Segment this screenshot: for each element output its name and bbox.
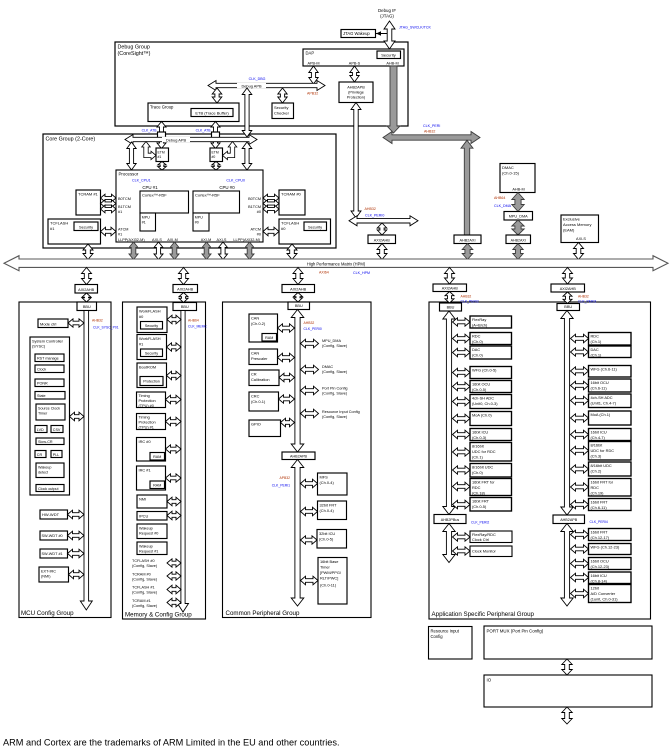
wire 8/16bit UDC for RDC Ch1 to bus bbox=[453, 448, 471, 456]
svg-text:16bit FRT for: 16bit FRT for bbox=[591, 480, 614, 485]
svg-text:UDC for RDC: UDC for RDC bbox=[591, 448, 615, 453]
wire AXI2AHB mid to HPM bbox=[377, 244, 387, 260]
svg-text:CLK_ATB: CLK_ATB bbox=[196, 129, 212, 133]
block BBU common bbox=[288, 302, 310, 310]
wire 32bit FRT to bus bbox=[301, 507, 318, 516]
wire 16bit FRT Ch6-11 to bus bbox=[571, 500, 589, 509]
svg-text:(Config, Slave): (Config, Slave) bbox=[132, 578, 158, 582]
svg-text:(Config, Slave): (Config, Slave) bbox=[132, 591, 158, 595]
port ATCM #1 bbox=[118, 228, 128, 237]
block 16bit ICU Ch0-3 bbox=[470, 429, 512, 441]
svg-text:BBU: BBU bbox=[447, 306, 455, 310]
wire MoA Ch0 to bus bbox=[453, 414, 471, 423]
svg-text:CLK_PERI3: CLK_PERI3 bbox=[578, 300, 596, 304]
svg-text:16bit FRT: 16bit FRT bbox=[591, 530, 609, 535]
port LLPP(AXI32-M) cpu1 bbox=[118, 238, 145, 242]
svg-text:Security: Security bbox=[308, 224, 322, 229]
svg-text:DMAC: DMAC bbox=[502, 165, 514, 170]
svg-text:DAP: DAP bbox=[306, 51, 315, 56]
label CLK_PERI0 common bbox=[304, 327, 322, 331]
svg-text:BBU: BBU bbox=[564, 305, 572, 309]
svg-text:#1: #1 bbox=[118, 233, 122, 237]
wire 16bit OCU Ch6-11 to bus bbox=[571, 381, 589, 390]
svg-text:#0: #0 bbox=[257, 233, 261, 237]
svg-text:#0: #0 bbox=[257, 210, 261, 214]
bus APP left vertical bbox=[443, 311, 455, 515]
svg-text:AHB2AXI: AHB2AXI bbox=[511, 238, 526, 242]
wire CAN Prescaler to bus bbox=[278, 353, 295, 362]
block TPU #0 bbox=[137, 392, 166, 408]
svg-text:RST manage: RST manage bbox=[37, 356, 59, 360]
svg-text:(Ch.0-1): (Ch.0-1) bbox=[251, 399, 266, 404]
port B0TCM right bbox=[248, 197, 261, 201]
block IRC #0 bbox=[137, 438, 166, 462]
label CLK_PERI2 app bbox=[471, 521, 489, 525]
svg-text:(Ch.12-23): (Ch.12-23) bbox=[591, 564, 610, 569]
svg-text:ETM: ETM bbox=[212, 151, 219, 155]
label CLK_PERI app-right bbox=[578, 300, 596, 304]
svg-text:AHB2AXI: AHB2AXI bbox=[459, 238, 475, 242]
block AXI2AHB mcu bbox=[75, 285, 98, 294]
bus APP right vertical bbox=[561, 311, 573, 516]
wire DMAC to MPU_DMA bbox=[512, 193, 524, 212]
block 8/16bit UDC for RDC Ch3 bbox=[589, 442, 632, 461]
node TCRAM #1 Config Slave bbox=[132, 599, 158, 608]
bus APP right lower bbox=[561, 524, 573, 607]
svg-text:#1: #1 bbox=[158, 155, 162, 159]
label AHB64 mem bbox=[188, 319, 199, 323]
svg-text:CLK_CPU0: CLK_CPU0 bbox=[226, 179, 245, 183]
svg-text:#1: #1 bbox=[118, 210, 122, 214]
svg-text:Timing: Timing bbox=[139, 416, 150, 420]
svg-text:(Ch.0-2): (Ch.0-2) bbox=[251, 321, 266, 326]
block AXI2AHB mem bbox=[173, 285, 198, 293]
block 16bit FRT Ch12-17 bbox=[589, 529, 632, 541]
svg-text:AXI-M: AXI-M bbox=[167, 238, 178, 242]
note trademark footnote bbox=[3, 738, 340, 748]
block DAP bbox=[303, 49, 404, 66]
block 16bit OCU Ch6-11 bbox=[589, 379, 632, 392]
svg-text:(Config, Slave): (Config, Slave) bbox=[322, 392, 348, 396]
wire AXI2AHB to BBU mem bbox=[179, 293, 188, 303]
svg-text:Core Group (2-Core): Core Group (2-Core) bbox=[46, 137, 96, 143]
svg-text:(Ch.12-17): (Ch.12-17) bbox=[591, 535, 610, 540]
svg-text:(TPU) #0: (TPU) #0 bbox=[139, 404, 154, 408]
svg-text:CLK_PERI4: CLK_PERI4 bbox=[590, 520, 608, 524]
block DAP Security bbox=[377, 51, 401, 59]
svg-text:MPU_DMA: MPU_DMA bbox=[322, 339, 341, 343]
svg-text:TCFLASH: TCFLASH bbox=[281, 221, 299, 226]
block MoA Ch1 bbox=[589, 411, 632, 425]
svg-text:RLT/PWC]: RLT/PWC] bbox=[320, 576, 338, 581]
block ETM #1 bbox=[156, 148, 169, 162]
svg-text:16bit ICU: 16bit ICU bbox=[591, 573, 607, 578]
block BBU mcu bbox=[77, 302, 97, 311]
svg-text:MCU Config Group: MCU Config Group bbox=[21, 610, 74, 617]
bus gray horizontal AHB bbox=[383, 132, 480, 144]
wire core bus to Processor right bbox=[242, 142, 252, 170]
label AHB32 top bbox=[424, 129, 435, 133]
wire AXI2AHB to BBU common bbox=[294, 293, 303, 303]
label APB32 common bbox=[279, 476, 290, 480]
wire IRC0 to bus bbox=[166, 445, 182, 453]
svg-text:CLK_PERI0: CLK_PERI0 bbox=[304, 327, 322, 331]
svg-text:GPIO: GPIO bbox=[251, 422, 261, 427]
port APB-S bbox=[349, 62, 361, 66]
block IRC1 RAM bbox=[150, 481, 165, 489]
wire 16bit FRT Ch0-5 to bus bbox=[453, 500, 471, 509]
svg-text:EXT-IRC: EXT-IRC bbox=[41, 570, 56, 574]
svg-text:CLK_HPM: CLK_HPM bbox=[353, 271, 370, 275]
node TCFLASH #1 Config Slave bbox=[132, 586, 158, 595]
svg-text:Clock Ctrl: Clock Ctrl bbox=[472, 537, 489, 542]
port AXI-M cpu0 bbox=[201, 238, 212, 242]
block 8/16bit UDC Ch0 bbox=[470, 464, 512, 478]
block Slow-CR bbox=[36, 438, 64, 445]
group Application Specific Peripheral Group bbox=[429, 302, 651, 619]
block 16bit FRT Ch6-11 bbox=[589, 499, 632, 511]
svg-text:8/16bit UDC: 8/16bit UDC bbox=[472, 465, 493, 470]
net JTAG_SWCLK/TCK bbox=[399, 26, 431, 30]
svg-text:8/16bit UDC: 8/16bit UDC bbox=[591, 463, 612, 468]
svg-text:Request #1: Request #1 bbox=[139, 550, 158, 554]
block WorkFLASH1 Security bbox=[141, 349, 163, 357]
bus COMMON vertical upper bbox=[291, 310, 304, 453]
svg-text:(Ch.0-4): (Ch.0-4) bbox=[320, 508, 335, 513]
svg-text:Exclusive: Exclusive bbox=[563, 217, 581, 222]
group MCU Config Group bbox=[19, 302, 111, 618]
svg-text:TCFLASH #0: TCFLASH #0 bbox=[132, 559, 155, 563]
wire 4ch-SH ADC Unit0 to bus bbox=[453, 397, 471, 406]
block 16bit FRT for RDC Ch19 bbox=[589, 479, 632, 497]
svg-text:Protection: Protection bbox=[139, 421, 156, 425]
wire TCFLASH0 to HPM bbox=[287, 244, 297, 260]
svg-text:TCRAM #1: TCRAM #1 bbox=[132, 599, 151, 603]
wire bus to Resource Input Config bbox=[301, 409, 319, 418]
svg-text:(Ch.0-4): (Ch.0-4) bbox=[320, 480, 335, 485]
svg-text:Security: Security bbox=[145, 352, 158, 356]
svg-text:AXI-S: AXI-S bbox=[152, 238, 162, 242]
svg-text:Clock Monitor: Clock Monitor bbox=[472, 549, 496, 554]
svg-text:(Config, Slave): (Config, Slave) bbox=[322, 415, 348, 419]
svg-text:16bit ICU: 16bit ICU bbox=[591, 430, 607, 435]
svg-text:(1unit, Ch.0-31): (1unit, Ch.0-31) bbox=[591, 597, 619, 602]
wire WFG Ch12-23 to bus bbox=[571, 545, 589, 553]
block IO bbox=[484, 675, 652, 707]
svg-text:ATCM: ATCM bbox=[118, 228, 128, 232]
svg-text:AXI2AHB: AXI2AHB bbox=[78, 288, 95, 292]
wire TPU0 to bus bbox=[166, 395, 182, 404]
wire elbow ETM0 right bbox=[223, 142, 237, 160]
wire AHB2AXI to HPM bbox=[462, 244, 473, 260]
junction ATB bridge 1 bbox=[158, 132, 166, 139]
svg-text:IRC #0: IRC #0 bbox=[139, 439, 152, 444]
node DMAC Config Slave bbox=[322, 365, 348, 374]
wire 16bit FRT Ch12-17 to bus bbox=[571, 530, 589, 539]
wire SW-WDT1 to bus bbox=[68, 549, 85, 558]
svg-text:(Ch.0-5): (Ch.0-5) bbox=[472, 504, 487, 509]
svg-text:UDC for RDC: UDC for RDC bbox=[472, 449, 496, 454]
block 8/16bit UDC for RDC Ch1 bbox=[470, 443, 512, 462]
wire HPM to AXI2AHB common bbox=[293, 268, 303, 285]
svg-text:(Ch.0-15): (Ch.0-15) bbox=[502, 171, 520, 176]
svg-text:(Config, Slave): (Config, Slave) bbox=[322, 344, 348, 348]
wire 16bit ICU Ch4-7 to bus bbox=[571, 430, 589, 439]
wire 16bit FRT for RDC Ch19 to bus bbox=[571, 483, 589, 491]
svg-text:CLK_SYSC_P01: CLK_SYSC_P01 bbox=[93, 326, 119, 330]
wire 16bit ICU Ch0-3 to bus bbox=[453, 430, 471, 439]
wire TCRAM1-B1TCM b bbox=[101, 205, 117, 213]
wire ETM1 to Processor bbox=[158, 162, 166, 171]
svg-text:CLK_PERI1: CLK_PERI1 bbox=[272, 484, 290, 488]
svg-text:CSV: CSV bbox=[53, 428, 61, 432]
svg-text:APB32: APB32 bbox=[279, 476, 290, 480]
wire MFS to bus bbox=[301, 479, 318, 488]
svg-text:#1: #1 bbox=[142, 221, 146, 225]
label CLK_PERI app-left bbox=[461, 300, 479, 304]
svg-text:ATCM: ATCM bbox=[251, 228, 261, 232]
svg-text:TCFLASH #1: TCFLASH #1 bbox=[132, 586, 155, 590]
svg-text:32bit ICU: 32bit ICU bbox=[319, 531, 335, 536]
svg-text:Mode ctrl: Mode ctrl bbox=[40, 321, 57, 326]
block JTAG Wakeup bbox=[341, 30, 376, 38]
block IRC #1 bbox=[137, 466, 166, 490]
svg-text:Cortex™-R5F: Cortex™-R5F bbox=[142, 193, 167, 198]
port B1TCM #0 bbox=[248, 205, 261, 214]
label CLK_MEMC bbox=[188, 325, 207, 329]
svg-text:(Config, Slave): (Config, Slave) bbox=[132, 564, 158, 568]
wire HW-WDT to bus bbox=[68, 510, 85, 519]
wire to AXI2AHB mid bbox=[377, 223, 387, 235]
svg-text:BBU: BBU bbox=[181, 305, 189, 309]
block CR bbox=[35, 451, 46, 458]
group Core Group (2-Core) bbox=[43, 134, 336, 248]
wire TPU1 to bus bbox=[166, 417, 182, 426]
wire 4ch-SH ADC Unit1 to bus bbox=[571, 396, 589, 405]
svg-text:MPU_DMA: MPU_DMA bbox=[509, 215, 528, 219]
svg-text:JTAG Wakeup: JTAG Wakeup bbox=[343, 31, 370, 36]
wire TCRAM0-B1TCM b bbox=[263, 205, 279, 213]
svg-text:CLK_PERI2: CLK_PERI2 bbox=[471, 521, 489, 525]
wire IO external bbox=[562, 707, 572, 724]
svg-text:(Ch.4-7): (Ch.4-7) bbox=[591, 435, 606, 440]
svg-text:Timer: Timer bbox=[38, 412, 48, 416]
bus MEM vertical bbox=[178, 311, 189, 613]
svg-text:16bit FRT: 16bit FRT bbox=[472, 499, 490, 504]
wire 16bit OCU Ch12-23 to bus bbox=[571, 559, 589, 568]
svg-text:TCRAM #0: TCRAM #0 bbox=[281, 192, 302, 197]
svg-text:(Ch.3): (Ch.3) bbox=[591, 454, 603, 459]
svg-text:Timer: Timer bbox=[320, 565, 331, 570]
svg-text:CLK_PERI: CLK_PERI bbox=[423, 124, 440, 128]
bus APP left lower bbox=[443, 524, 455, 563]
svg-text:CLK_PERI0: CLK_PERI0 bbox=[365, 214, 384, 218]
bus AHB-M gray from DAP bbox=[387, 66, 400, 133]
block AHB2APB app bbox=[553, 515, 585, 524]
svg-text:Resource Input Config: Resource Input Config bbox=[322, 410, 360, 414]
svg-text:SW-WDT #0: SW-WDT #0 bbox=[42, 534, 63, 538]
block Resource Input Config bbox=[429, 627, 473, 660]
port AXI-S cpu0 bbox=[217, 238, 227, 242]
svg-text:B1TCM: B1TCM bbox=[118, 205, 131, 209]
block Clock output bbox=[36, 485, 64, 492]
svg-text:16bit OCU: 16bit OCU bbox=[472, 382, 490, 387]
svg-text:Security: Security bbox=[145, 324, 158, 328]
block WorkFLASH0 Security bbox=[141, 322, 163, 330]
bus Debug APB (core group) bbox=[125, 135, 257, 145]
label AHB32 mcu bbox=[92, 319, 103, 323]
wire TCFLASH1 to HPM bbox=[83, 244, 93, 260]
svg-text:RDC: RDC bbox=[472, 334, 481, 339]
wire core bus to Processor left bbox=[127, 142, 136, 170]
svg-text:IPCU: IPCU bbox=[139, 514, 148, 519]
svg-text:(CoreSight™): (CoreSight™) bbox=[118, 51, 151, 57]
block Processor bbox=[116, 170, 263, 242]
block Cortex-R5F CPU0 bbox=[193, 191, 240, 213]
svg-text:Cortex™-R5F: Cortex™-R5F bbox=[195, 193, 220, 198]
svg-text:(JTAG): (JTAG) bbox=[380, 14, 394, 19]
svg-text:RDC: RDC bbox=[591, 485, 600, 490]
svg-text:AHB2APB: AHB2APB bbox=[560, 518, 578, 522]
svg-text:AHB32: AHB32 bbox=[424, 129, 435, 133]
svg-text:(Privilege: (Privilege bbox=[348, 91, 364, 95]
svg-text:16bit OCU: 16bit OCU bbox=[591, 380, 609, 385]
wire 16bit Base Timer to bus bbox=[301, 576, 319, 585]
svg-text:Timing: Timing bbox=[139, 394, 150, 398]
wire CR Calibration to bus bbox=[279, 373, 295, 382]
block BootROM bbox=[137, 363, 167, 388]
node Port Pin Config Config Slave bbox=[322, 387, 348, 396]
block IRC0 RAM bbox=[150, 453, 165, 461]
block WFG Ch12-23 bbox=[589, 544, 632, 555]
block AXI2AHB common bbox=[282, 285, 315, 293]
block 4ch-SH ADC Unit1 bbox=[589, 394, 632, 408]
block Exclusive Access Memory EAM bbox=[561, 215, 599, 243]
wire JTAG debug interface arrow bbox=[384, 21, 395, 49]
svg-text:AXI2AHB: AXI2AHB bbox=[374, 238, 391, 242]
wire EAM to HPM bbox=[574, 243, 584, 260]
svg-text:AHB64: AHB64 bbox=[494, 196, 505, 200]
svg-text:Debug Group: Debug Group bbox=[118, 45, 150, 51]
svg-text:(Ch.19): (Ch.19) bbox=[591, 491, 605, 496]
wire bus to MPU_DMA cfg bbox=[301, 339, 319, 348]
svg-text:(Config, Slave): (Config, Slave) bbox=[322, 370, 348, 374]
wire TCFLASH0 cfg to bus bbox=[167, 559, 181, 567]
svg-text:AXI2AHB: AXI2AHB bbox=[177, 287, 194, 291]
wire LLPP0 to HPM bbox=[245, 242, 254, 260]
svg-text:Protection: Protection bbox=[143, 380, 160, 384]
svg-text:APB-M: APB-M bbox=[307, 62, 319, 66]
wire DAP APB-S to AHB2APB bbox=[350, 66, 359, 82]
wire bus to DMAC cfg bbox=[301, 365, 319, 374]
block TCFLASH #1 bbox=[48, 219, 101, 244]
node TCFLASH #0 Config Slave bbox=[132, 559, 158, 568]
svg-text:AHB2APB: AHB2APB bbox=[347, 86, 365, 90]
svg-text:(Ch.6-11): (Ch.6-11) bbox=[591, 386, 608, 391]
svg-text:PORT MUX (Port Pin Config): PORT MUX (Port Pin Config) bbox=[487, 629, 544, 634]
wire TCRAM0-B1TCM a bbox=[263, 200, 279, 207]
block IPCU bbox=[137, 512, 167, 521]
bus COMMON vertical lower APB bbox=[291, 460, 304, 607]
svg-text:CLK_CPU1: CLK_CPU1 bbox=[132, 179, 151, 183]
svg-text:#1: #1 bbox=[50, 226, 55, 231]
svg-text:AHB32: AHB32 bbox=[461, 295, 472, 299]
wire GPIO to bus bbox=[281, 418, 295, 427]
svg-text:(Ch.0-5): (Ch.0-5) bbox=[319, 537, 334, 542]
wire TCFLASH1 cfg to bus bbox=[167, 585, 181, 594]
svg-text:4ch-SH ADC: 4ch-SH ADC bbox=[591, 395, 613, 400]
wire DAC Ch0 to bus bbox=[453, 348, 471, 357]
svg-text:(Ch.6-11): (Ch.6-11) bbox=[591, 505, 608, 510]
svg-text:AHB64: AHB64 bbox=[188, 319, 199, 323]
block PONR bbox=[35, 379, 64, 387]
wire AXI-M1 to HPM bbox=[170, 242, 179, 260]
wire HPM to AXI2AHB mem bbox=[179, 268, 189, 285]
svg-text:RAM: RAM bbox=[153, 484, 161, 488]
svg-text:MPU: MPU bbox=[195, 216, 203, 220]
svg-text:TCRAM #1: TCRAM #1 bbox=[78, 192, 99, 197]
label CLK_DBG bbox=[249, 77, 266, 81]
svg-text:Config: Config bbox=[431, 634, 444, 639]
svg-text:Wakeup: Wakeup bbox=[139, 527, 153, 531]
label CLK_PERI0 mid bbox=[365, 214, 384, 218]
block CSV bbox=[51, 426, 63, 433]
port AHB-M bbox=[386, 62, 398, 66]
svg-text:(Ch.1): (Ch.1) bbox=[591, 339, 603, 344]
svg-text:8/16bit: 8/16bit bbox=[472, 444, 485, 449]
block CAN bbox=[249, 314, 278, 342]
svg-text:Calibration: Calibration bbox=[251, 377, 270, 382]
svg-text:AHB32: AHB32 bbox=[92, 319, 103, 323]
svg-text:detect: detect bbox=[38, 471, 48, 475]
svg-text:AXI2AHB: AXI2AHB bbox=[290, 287, 307, 291]
wire PORT MUX to IO bbox=[562, 659, 572, 675]
group Debug Group (CoreSight) bbox=[115, 42, 408, 126]
wire ETM0 to Processor bbox=[212, 162, 220, 171]
svg-text:MoA (Ch.0): MoA (Ch.0) bbox=[472, 413, 492, 418]
wire TCRAM1-B0TCM bbox=[101, 194, 117, 202]
svg-text:Wakeup: Wakeup bbox=[139, 545, 153, 549]
wire AXI-S1 to HPM bbox=[154, 242, 163, 260]
block MPU #1 bbox=[140, 213, 156, 231]
block 16bit Base Timer bbox=[318, 558, 347, 605]
svg-text:4ch-SH ADC: 4ch-SH ADC bbox=[472, 396, 494, 401]
wire TCRAM1-B1TCM a bbox=[101, 200, 117, 207]
wire HPM to AXI2AHB mcu bbox=[82, 268, 92, 285]
svg-text:(TPU) #1: (TPU) #1 bbox=[139, 426, 154, 430]
svg-text:Processor: Processor bbox=[119, 172, 139, 177]
wire 8/16bit UDC for RDC Ch3 to bus bbox=[571, 446, 589, 455]
block 16bit OCU Ch0-5 bbox=[470, 381, 512, 393]
svg-text:IO: IO bbox=[487, 678, 492, 683]
svg-text:APB-S: APB-S bbox=[349, 62, 361, 66]
svg-text:APB32: APB32 bbox=[307, 92, 318, 96]
wire AXI-S0 to HPM bbox=[219, 242, 228, 260]
svg-text:LLPP(AXI32-M): LLPP(AXI32-M) bbox=[233, 238, 260, 242]
svg-text:Checker: Checker bbox=[274, 111, 290, 116]
wire IPCU to bus bbox=[167, 511, 181, 520]
port AXI-S cpu1 bbox=[152, 238, 162, 242]
svg-text:16bit ICU: 16bit ICU bbox=[472, 430, 488, 435]
svg-text:WorkFLASH: WorkFLASH bbox=[139, 336, 161, 341]
block TCFLASH #0 bbox=[279, 219, 331, 244]
wire Mode ctrl to bus bbox=[68, 319, 84, 327]
svg-text:A/D Converter: A/D Converter bbox=[591, 591, 616, 596]
svg-text:IRC #1: IRC #1 bbox=[139, 468, 151, 473]
block State bbox=[35, 392, 65, 400]
bus horizontal white APB bbox=[349, 216, 418, 226]
wire 12bit A/D Converter to bus bbox=[571, 589, 589, 598]
